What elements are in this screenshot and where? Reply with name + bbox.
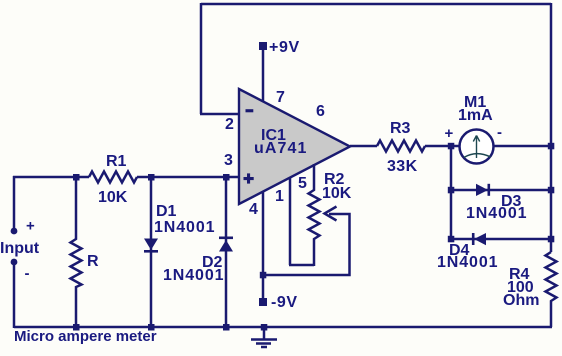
wire: R3 to meter xyxy=(425,145,460,148)
node: input + terminal xyxy=(11,228,18,235)
svg-text:4: 4 xyxy=(249,201,258,218)
wire: D3 horizontal xyxy=(451,189,551,192)
svg-text:1: 1 xyxy=(275,188,284,205)
wire: pin 4 to -9V xyxy=(262,191,265,298)
op-amp IC1 uA741 xyxy=(239,89,350,204)
resistor R (vertical) xyxy=(71,176,82,328)
diode D1 xyxy=(144,239,158,251)
wire: meter to right rail xyxy=(494,145,551,148)
resistor R3 xyxy=(377,141,425,152)
node: D1 bottom junction xyxy=(148,324,155,331)
svg-text:-9V: -9V xyxy=(271,294,298,311)
svg-text:-: - xyxy=(497,124,502,141)
resistor R1 xyxy=(89,172,137,183)
svg-text:uA741: uA741 xyxy=(254,140,308,157)
svg-text:R1: R1 xyxy=(106,153,127,170)
potentiometer R2 xyxy=(309,164,320,266)
resistor R4 xyxy=(546,252,557,304)
wire: pin 1 vertical xyxy=(289,177,292,265)
wire: D1 vertical xyxy=(150,176,153,328)
node: D4 right junction xyxy=(548,236,555,243)
node: D4 left junction xyxy=(448,236,455,243)
diode D4 xyxy=(474,233,486,245)
node: D3 right junction xyxy=(548,187,555,194)
svg-text:Ohm: Ohm xyxy=(503,292,539,309)
svg-text:3: 3 xyxy=(224,152,233,169)
wire: D4 horizontal xyxy=(451,238,551,241)
+9V supply square xyxy=(259,42,267,50)
op-amp minus marker xyxy=(246,109,254,112)
wire: feedback top horizontal xyxy=(201,3,551,6)
node: D1 top junction xyxy=(148,174,155,181)
node: D2 bottom junction xyxy=(223,324,230,331)
wire: feedback left vertical xyxy=(200,3,203,114)
meter needle xyxy=(473,136,479,159)
wire: op-amp output xyxy=(350,145,377,148)
svg-text:1N4001: 1N4001 xyxy=(466,205,527,222)
node: meter output on right rail xyxy=(548,143,555,150)
diode D3 xyxy=(476,184,488,196)
svg-text:5: 5 xyxy=(298,175,307,192)
node: D3 left junction xyxy=(448,187,455,194)
svg-text:10K: 10K xyxy=(98,189,128,206)
wire: input rail left segment xyxy=(13,176,89,179)
svg-text:R3: R3 xyxy=(390,120,411,137)
wire: inverting input (pin 2) horizontal xyxy=(200,113,240,116)
node: R bottom junction xyxy=(73,324,80,331)
meter M1 xyxy=(460,130,494,164)
node: pin4 / wiper junction xyxy=(260,272,267,279)
svg-text:+: + xyxy=(445,125,454,142)
node: bottom rail D2 junction xyxy=(223,324,230,331)
svg-text:-: - xyxy=(25,265,30,282)
node: input - terminal xyxy=(11,259,18,266)
wire: R2 wiper arm xyxy=(263,214,350,275)
node: D2 top junction xyxy=(223,174,230,181)
svg-text:+9V: +9V xyxy=(269,39,300,56)
wire: bottom rail xyxy=(14,326,552,329)
op-amp plus marker xyxy=(244,177,254,180)
wire: meter + branch down xyxy=(450,146,453,239)
ground xyxy=(263,327,266,339)
svg-text:33K: 33K xyxy=(387,158,418,175)
wire: right vertical rail upper xyxy=(550,3,553,252)
svg-text:R: R xyxy=(87,253,99,270)
svg-text:1N4001: 1N4001 xyxy=(437,254,498,271)
svg-text:+: + xyxy=(26,218,35,235)
svg-text:10K: 10K xyxy=(322,185,352,202)
wire: input rail right segment to pin 3 xyxy=(137,176,240,179)
wire: right vertical rail lower xyxy=(550,304,553,327)
node: bottom rail ground junction xyxy=(261,324,268,331)
svg-text:D1: D1 xyxy=(156,203,177,220)
wire: pot bottom U link xyxy=(289,264,314,267)
diode D2 xyxy=(219,237,233,240)
meter scale arc xyxy=(464,154,491,158)
node: R1/R junction xyxy=(73,174,80,181)
svg-text:1N4001: 1N4001 xyxy=(154,219,215,236)
svg-text:7: 7 xyxy=(276,89,285,106)
svg-text:1N4001: 1N4001 xyxy=(163,267,224,284)
node: meter + junction xyxy=(448,143,455,150)
wire: D2 vertical xyxy=(225,176,228,328)
wire: +9V supply lead (pin 7) xyxy=(262,49,265,102)
-9V supply square xyxy=(259,298,267,306)
R2 wiper arrowhead xyxy=(325,207,337,221)
svg-text:Micro ampere meter: Micro ampere meter xyxy=(14,328,157,345)
svg-text:Input: Input xyxy=(0,240,40,257)
svg-text:6: 6 xyxy=(316,103,325,120)
wire: input - lead xyxy=(13,264,16,328)
wire: input + lead xyxy=(13,176,16,228)
svg-text:1mA: 1mA xyxy=(458,107,493,124)
svg-text:2: 2 xyxy=(225,116,234,133)
